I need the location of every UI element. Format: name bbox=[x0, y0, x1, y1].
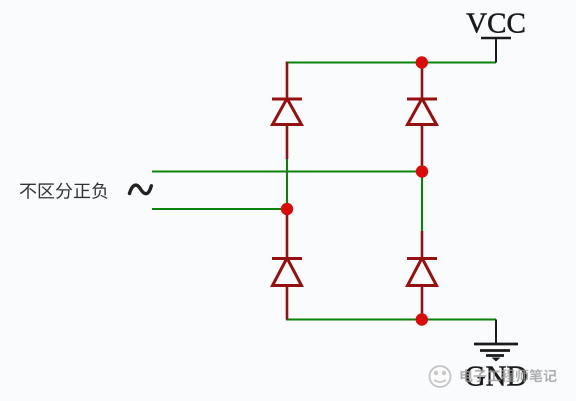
diode D4 bottom-right leads bbox=[421, 231, 424, 320]
wire bottom rail GND bbox=[286, 318, 496, 320]
diode D4 bottom-right bbox=[407, 258, 437, 286]
junction dot top rail bbox=[416, 56, 428, 68]
watermark 电子工程师笔记 bbox=[461, 369, 557, 382]
ground pin nub bbox=[492, 358, 501, 362]
diode D2 top-right bbox=[407, 99, 437, 125]
junction dot left mid bbox=[281, 203, 293, 215]
power symbol VCC bbox=[481, 38, 511, 63]
diode D2 top-right leads bbox=[421, 64, 424, 165]
label 不区分正负 bbox=[20, 182, 108, 199]
wire right branch mid bbox=[421, 164, 423, 232]
wire top rail VCC bbox=[286, 61, 496, 63]
diode D3 bottom-left leads bbox=[286, 210, 289, 320]
junction dot right mid bbox=[416, 165, 428, 177]
AC source tilde bbox=[130, 185, 152, 194]
ground symbol GND bbox=[474, 320, 518, 356]
diode D1 top-left leads bbox=[286, 62, 289, 160]
svg-text:VCC: VCC bbox=[466, 7, 526, 39]
wire AC input lower bbox=[152, 208, 287, 210]
junction dot bottom rail bbox=[416, 313, 428, 325]
wire AC input upper bbox=[152, 170, 422, 172]
wire left branch mid bbox=[286, 158, 288, 209]
diode D3 bottom-left bbox=[272, 258, 302, 286]
watermark logo bbox=[430, 366, 451, 387]
diode D1 top-left bbox=[272, 99, 302, 125]
